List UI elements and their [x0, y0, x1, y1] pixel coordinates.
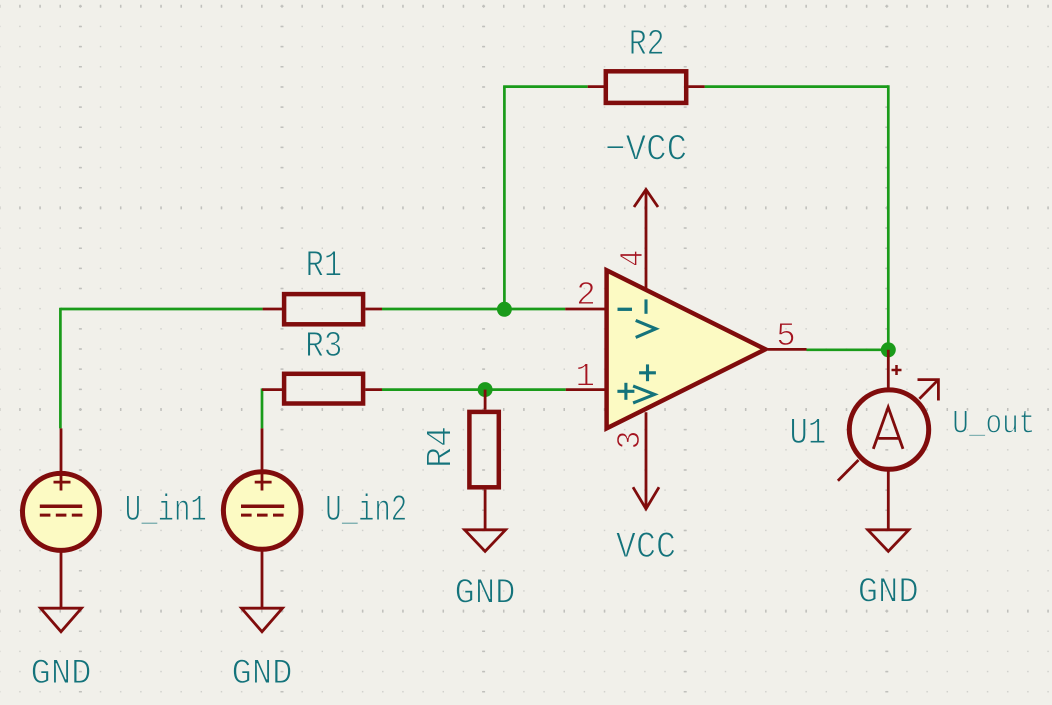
pin U2.1 non-inverting input — [566, 388, 605, 391]
ground symbol U1 — [868, 530, 909, 552]
ground symbol U_in2 — [242, 608, 283, 632]
ammeter A glyph — [873, 407, 903, 449]
junction at output node — [881, 342, 896, 357]
resistor R4 — [469, 412, 498, 487]
component pins — [61, 87, 888, 609]
pin R3.1 left — [262, 388, 282, 391]
pin R4.2 bottom to GND — [484, 490, 487, 530]
svg-text:U_out: U_out — [952, 406, 1035, 443]
voltage source U_in1 — [23, 473, 100, 550]
wire U_in1 to R1 left — [60, 308, 262, 311]
pin U_in1 plus top — [60, 428, 63, 490]
pin R1.2 right — [365, 308, 382, 311]
resistor R2 — [606, 71, 686, 103]
wire R2 right to right column — [705, 85, 889, 88]
resistor R1 — [284, 294, 363, 324]
op-amp plus marker (pin 1) — [617, 383, 634, 400]
svg-text:VCC: VCC — [616, 527, 676, 569]
U_in2 dashed plate — [241, 514, 284, 517]
op-amp minus marker (pin 2) — [618, 308, 633, 311]
pin R2.2 right — [689, 85, 705, 88]
pin R1.1 left — [263, 308, 282, 311]
U_in1 plus mark — [54, 474, 71, 491]
pin U1 ammeter bottom — [887, 470, 890, 530]
U_in2 plus mark — [255, 474, 272, 491]
svg-text:1: 1 — [576, 358, 596, 395]
op-amp pin-name V+ (rotated, pin 3) — [633, 364, 656, 403]
wire R2 row left — [503, 85, 588, 88]
svg-text:U1: U1 — [790, 413, 827, 455]
wire pin5 to output junction — [807, 348, 889, 351]
svg-text:5: 5 — [776, 318, 796, 355]
op-amp pin-name V- (rotated, pin 4) — [636, 299, 656, 337]
pin numbers — [576, 250, 796, 450]
wire down to U_in1 — [59, 308, 62, 429]
pin U_in1 minus bottom — [60, 552, 63, 608]
VCC power arrow head — [633, 487, 659, 509]
svg-text:R4: R4 — [421, 426, 462, 468]
svg-text:U_in2: U_in2 — [325, 490, 407, 532]
ammeter diagonal arrow — [838, 380, 939, 481]
pin U2.4 with -VCC power arrow line — [645, 190, 648, 289]
svg-text:GND: GND — [31, 653, 92, 694]
svg-text:4: 4 — [615, 250, 652, 267]
pin U_in2 minus bottom — [261, 551, 264, 609]
svg-text:U_in1: U_in1 — [125, 490, 207, 532]
wire right column down — [887, 85, 890, 350]
pin U_in2 plus top — [261, 428, 264, 490]
op-amp body — [607, 270, 766, 428]
voltage source U_in2 — [223, 472, 301, 550]
ground symbol U_in1 — [41, 608, 82, 632]
ammeter U1 — [849, 390, 928, 469]
svg-text:GND: GND — [455, 573, 516, 614]
svg-text:R2: R2 — [629, 24, 665, 65]
svg-text:GND: GND — [858, 572, 919, 613]
U_in2 solid plate — [241, 504, 284, 508]
pin R3.2 right — [365, 388, 382, 391]
-VCC power arrow head — [634, 190, 658, 208]
wire R1 right to opamp pin 2 — [382, 308, 565, 311]
svg-text:GND: GND — [232, 653, 293, 694]
svg-text:R1: R1 — [306, 246, 343, 288]
svg-text:2: 2 — [576, 277, 596, 314]
wire R3 left down to U_in2 — [261, 388, 264, 428]
pin R4.1 top — [484, 390, 487, 410]
pin U2.2 inverting input — [565, 308, 605, 311]
ground symbol R4 — [465, 530, 506, 552]
svg-text:3: 3 — [612, 431, 649, 450]
svg-text:R3: R3 — [305, 326, 342, 367]
junction at R1/R2 node — [497, 302, 512, 317]
U_in1 solid plate — [40, 504, 82, 508]
pin U1 ammeter top — [887, 350, 890, 390]
wire junction up to R2 row — [503, 87, 506, 309]
resistor R3 — [284, 374, 363, 404]
U_in1 dashed plate — [40, 514, 83, 517]
pin U2.3 with VCC power arrow line — [645, 412, 648, 509]
ammeter plus mark — [892, 365, 902, 375]
svg-text:−VCC: −VCC — [605, 129, 687, 171]
pin R2.1 left — [588, 85, 606, 88]
pin U2.5 output — [768, 348, 807, 351]
wire R3 right to opamp pin 1 — [382, 388, 566, 391]
junction at R3/R4 node — [478, 382, 493, 397]
